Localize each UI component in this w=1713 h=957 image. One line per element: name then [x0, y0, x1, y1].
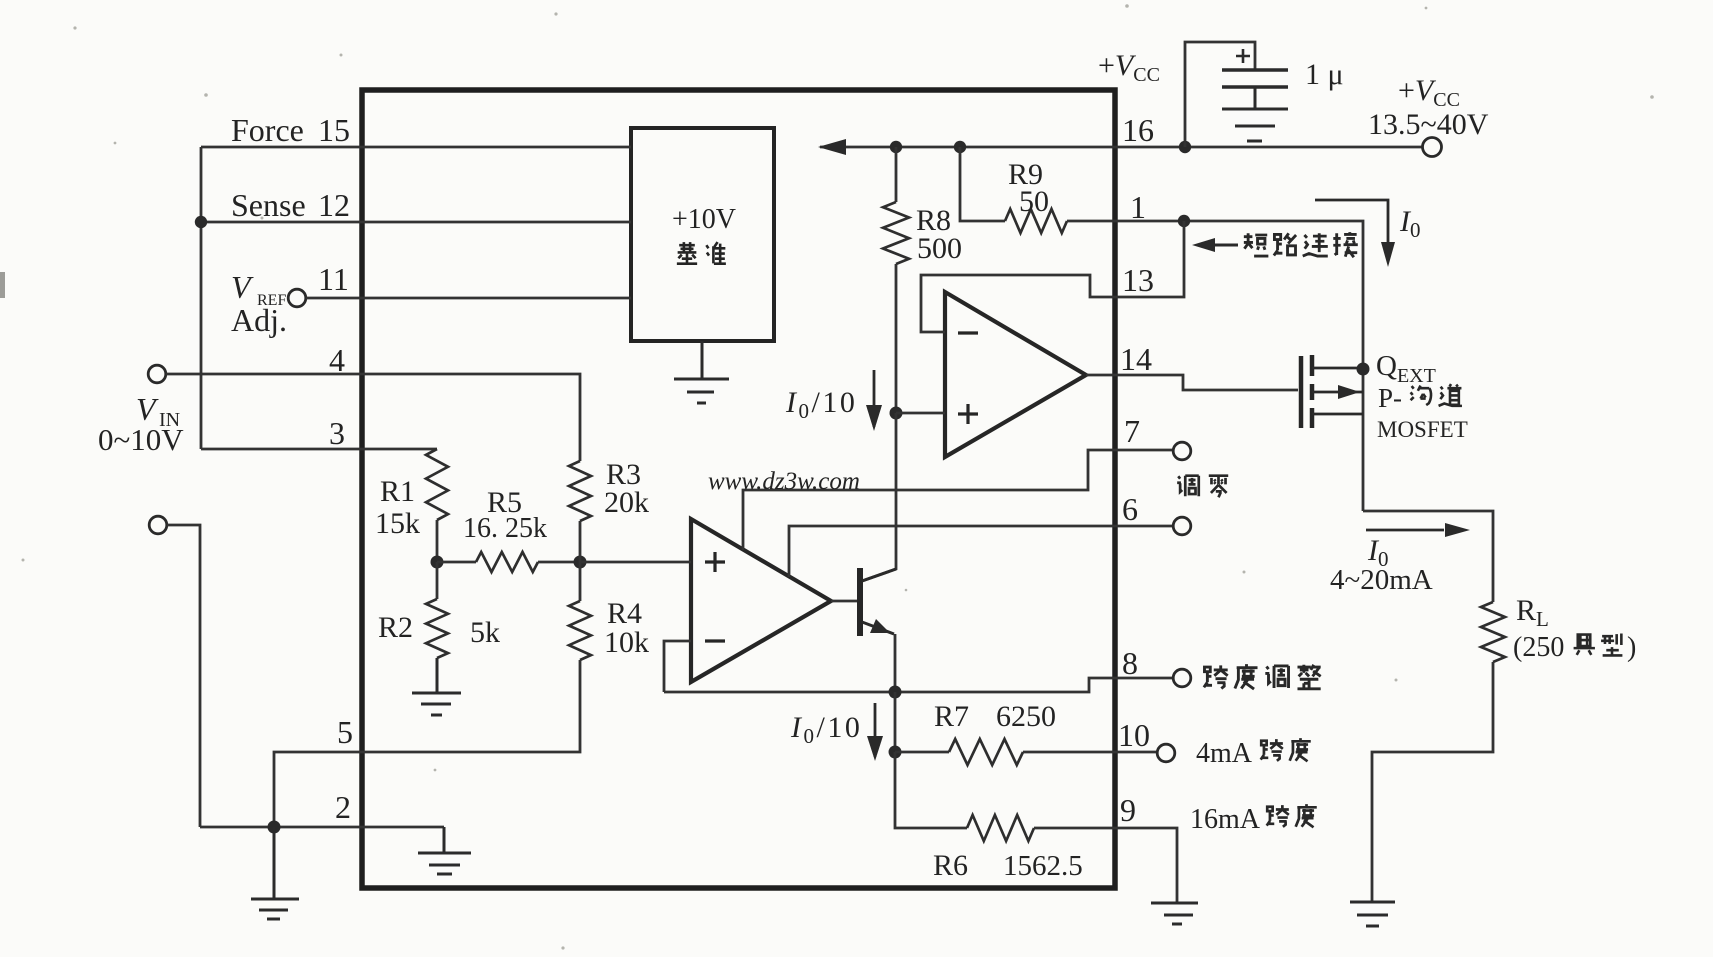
arrow short link annotation: [1192, 238, 1238, 252]
resistor R2 5k: [426, 599, 448, 658]
svg-text:Sense: Sense: [231, 187, 306, 223]
junction dot MOSFET source: [1357, 363, 1370, 376]
svg-text:15k: 15k: [375, 507, 420, 540]
svg-text:16mA: 16mA: [1190, 804, 1261, 835]
wire RL to ground: [1372, 662, 1493, 901]
wire pin8 span adjust: [664, 678, 1174, 692]
arrow into IC on pin16 rail: [818, 139, 846, 155]
arrow I0/10 upper annotation: [866, 370, 882, 431]
junction dot pin2: [268, 821, 281, 834]
wire node B to R4: [579, 562, 582, 601]
svg-text:50: 50: [1019, 185, 1049, 218]
terminal VREF Adj pin11: [288, 289, 306, 307]
junction dot cap branch: [1179, 141, 1191, 153]
wire R7 lead: [895, 751, 949, 754]
svg-text:13.5~40V: 13.5~40V: [1368, 108, 1489, 141]
terminal pin6: [1173, 517, 1191, 535]
svg-text:11: 11: [318, 261, 349, 297]
resistor R4 10k: [569, 601, 591, 660]
arrow I0 output annotation: [1366, 523, 1470, 537]
wire R8 branch vertical: [895, 147, 898, 202]
wire lower input to pin2: [167, 525, 200, 827]
wire emitter to pin8 node: [894, 634, 897, 692]
ground under capacitor: [1222, 87, 1288, 141]
svg-text:R6: R6: [933, 849, 968, 882]
junction dot pin1: [1178, 215, 1190, 227]
junction dot U1 plus input: [890, 407, 903, 420]
arrow I0/10 lower annotation: [867, 703, 883, 761]
wire pin11 VREF: [306, 297, 631, 300]
svg-text:10: 10: [1118, 717, 1150, 753]
wire U1 plus input: [896, 412, 945, 415]
svg-text:R1: R1: [380, 475, 415, 508]
transistor Q1: [860, 568, 896, 636]
junction dot R7 node: [889, 746, 902, 759]
wire node B to op-amp U2 plus input: [580, 561, 691, 564]
wire pin7 null adjust: [743, 450, 1173, 550]
wire pin2: [200, 826, 444, 829]
wire pin16 Vcc rail: [820, 146, 1422, 149]
ground pin9: [1151, 903, 1198, 924]
label span adjust 跨度调整: [1204, 664, 1321, 689]
svg-text:9: 9: [1120, 792, 1136, 828]
svg-text:5k: 5k: [470, 616, 500, 649]
wire pin6: [789, 526, 1173, 577]
terminal VIN lower: [149, 516, 167, 534]
wire R4 to pin5: [274, 660, 580, 827]
wire pin15 Force: [201, 146, 631, 149]
wire cap branch: [1185, 42, 1255, 147]
wire MOSFET drain to RL: [1363, 511, 1493, 602]
svg-text:12: 12: [318, 187, 350, 223]
svg-text:20k: 20k: [604, 486, 649, 519]
svg-text:MOSFET: MOSFET: [1377, 417, 1468, 442]
junction dot emitter pin8: [889, 686, 902, 699]
wire pin3 to R1: [201, 448, 437, 451]
svg-text:500: 500: [917, 232, 962, 265]
wire pin8 node down to R7 node: [894, 692, 897, 752]
svg-text:13: 13: [1122, 262, 1154, 298]
resistor R7 6250: [949, 739, 1023, 765]
wire R9 branch: [960, 147, 1005, 221]
resistor R1 15k: [426, 449, 448, 520]
svg-text:I0/10: I0/10: [785, 386, 857, 423]
svg-text:1: 1: [1130, 189, 1146, 225]
svg-text:16. 25k: 16. 25k: [463, 513, 547, 544]
svg-text:6: 6: [1122, 491, 1138, 527]
terminal pin7: [1173, 442, 1191, 460]
svg-text:2: 2: [335, 789, 351, 825]
wire pin4 to R3: [166, 374, 580, 461]
svg-text:6250: 6250: [996, 700, 1056, 733]
svg-text:): ): [1627, 632, 1636, 663]
svg-text:16: 16: [1122, 112, 1154, 148]
terminal pin10: [1157, 744, 1175, 762]
svg-text:I0/10: I0/10: [790, 711, 862, 748]
wire node A to R5: [437, 561, 476, 564]
wire U2 minus loop to pin8: [664, 641, 691, 692]
svg-text:(250: (250: [1513, 632, 1564, 663]
svg-text:1562.5: 1562.5: [1003, 850, 1083, 882]
svg-text:+10V: +10V: [672, 204, 736, 235]
wire pin1: [1067, 221, 1363, 511]
MOSFET QEXT P-channel: [1301, 355, 1363, 428]
ground RL: [1350, 902, 1395, 926]
wire left bus vertical (Force/Sense to pin3): [200, 147, 203, 449]
wire R1 to node A: [436, 520, 439, 562]
label null adjust 调零: [1177, 476, 1228, 498]
svg-text:3: 3: [329, 415, 345, 451]
+10V reference box: [631, 128, 774, 341]
svg-text:R2: R2: [378, 611, 413, 644]
IC box U1 outline (16-pin package): [362, 90, 1115, 888]
svg-text:Force: Force: [231, 112, 304, 148]
ground bottom-left: [251, 827, 299, 919]
svg-text:15: 15: [318, 112, 350, 148]
svg-text:1 μ: 1 μ: [1305, 58, 1344, 91]
arrow I0 top annotation: [1315, 200, 1395, 267]
wire R3 to node B: [579, 521, 582, 562]
terminal VIN upper pin4: [148, 365, 166, 383]
transistor Q1 base wire from U2 output: [831, 600, 857, 603]
capacitor C1 1u: [1222, 49, 1288, 87]
wire short link pin1 to pin13: [921, 221, 1184, 332]
resistor R5 16.25k: [476, 552, 538, 572]
resistor R3 20k: [569, 461, 591, 521]
svg-text:www.dz3w.com: www.dz3w.com: [708, 468, 860, 495]
svg-text:Adj.: Adj.: [231, 302, 287, 338]
terminal +Vcc pin16: [1423, 138, 1442, 157]
wire R7 node down to R6: [895, 752, 967, 828]
ground under +10V box: [674, 341, 729, 403]
ground at pin2 inside: [418, 827, 471, 874]
svg-text:P-: P-: [1378, 383, 1402, 413]
terminal pin8: [1173, 669, 1191, 687]
wire collector rail: [862, 413, 896, 581]
junction dot Sense: [195, 216, 207, 228]
svg-text:4: 4: [329, 342, 345, 378]
wire R8 to U1 plus node: [895, 264, 898, 413]
junction dot R9 branch: [954, 141, 966, 153]
resistor R6 1562.5: [967, 815, 1034, 841]
svg-text:14: 14: [1120, 341, 1152, 377]
resistor R8 500: [883, 202, 909, 264]
wire pin12 Sense: [201, 221, 631, 224]
svg-text:R7: R7: [934, 700, 969, 733]
node B junction dot: [574, 556, 587, 569]
svg-text:4~20mA: 4~20mA: [1330, 564, 1433, 596]
op-amp U1 (upper, XTR110 internal): [945, 292, 1086, 457]
node A junction dot: [431, 556, 444, 569]
svg-text:4mA: 4mA: [1196, 738, 1253, 769]
svg-text:10k: 10k: [604, 626, 649, 659]
wire pin10: [1023, 751, 1157, 754]
junction dot R8 branch: [890, 141, 902, 153]
wire pin9: [1034, 828, 1177, 902]
svg-text:5: 5: [337, 714, 353, 750]
wire R5 to node B: [538, 561, 580, 564]
wire node A to R2: [436, 562, 439, 599]
label short-link 短路连接: [1244, 232, 1358, 257]
wire pin14 to MOSFET gate: [1086, 375, 1298, 390]
resistor RL 250: [1481, 602, 1505, 662]
ground under R2: [412, 658, 461, 715]
op-amp U2 (lower): [691, 519, 831, 682]
svg-text:7: 7: [1124, 413, 1140, 449]
resistor R9 50: [1005, 209, 1067, 233]
svg-text:8: 8: [1122, 645, 1138, 681]
svg-text:0~10V: 0~10V: [98, 422, 184, 457]
